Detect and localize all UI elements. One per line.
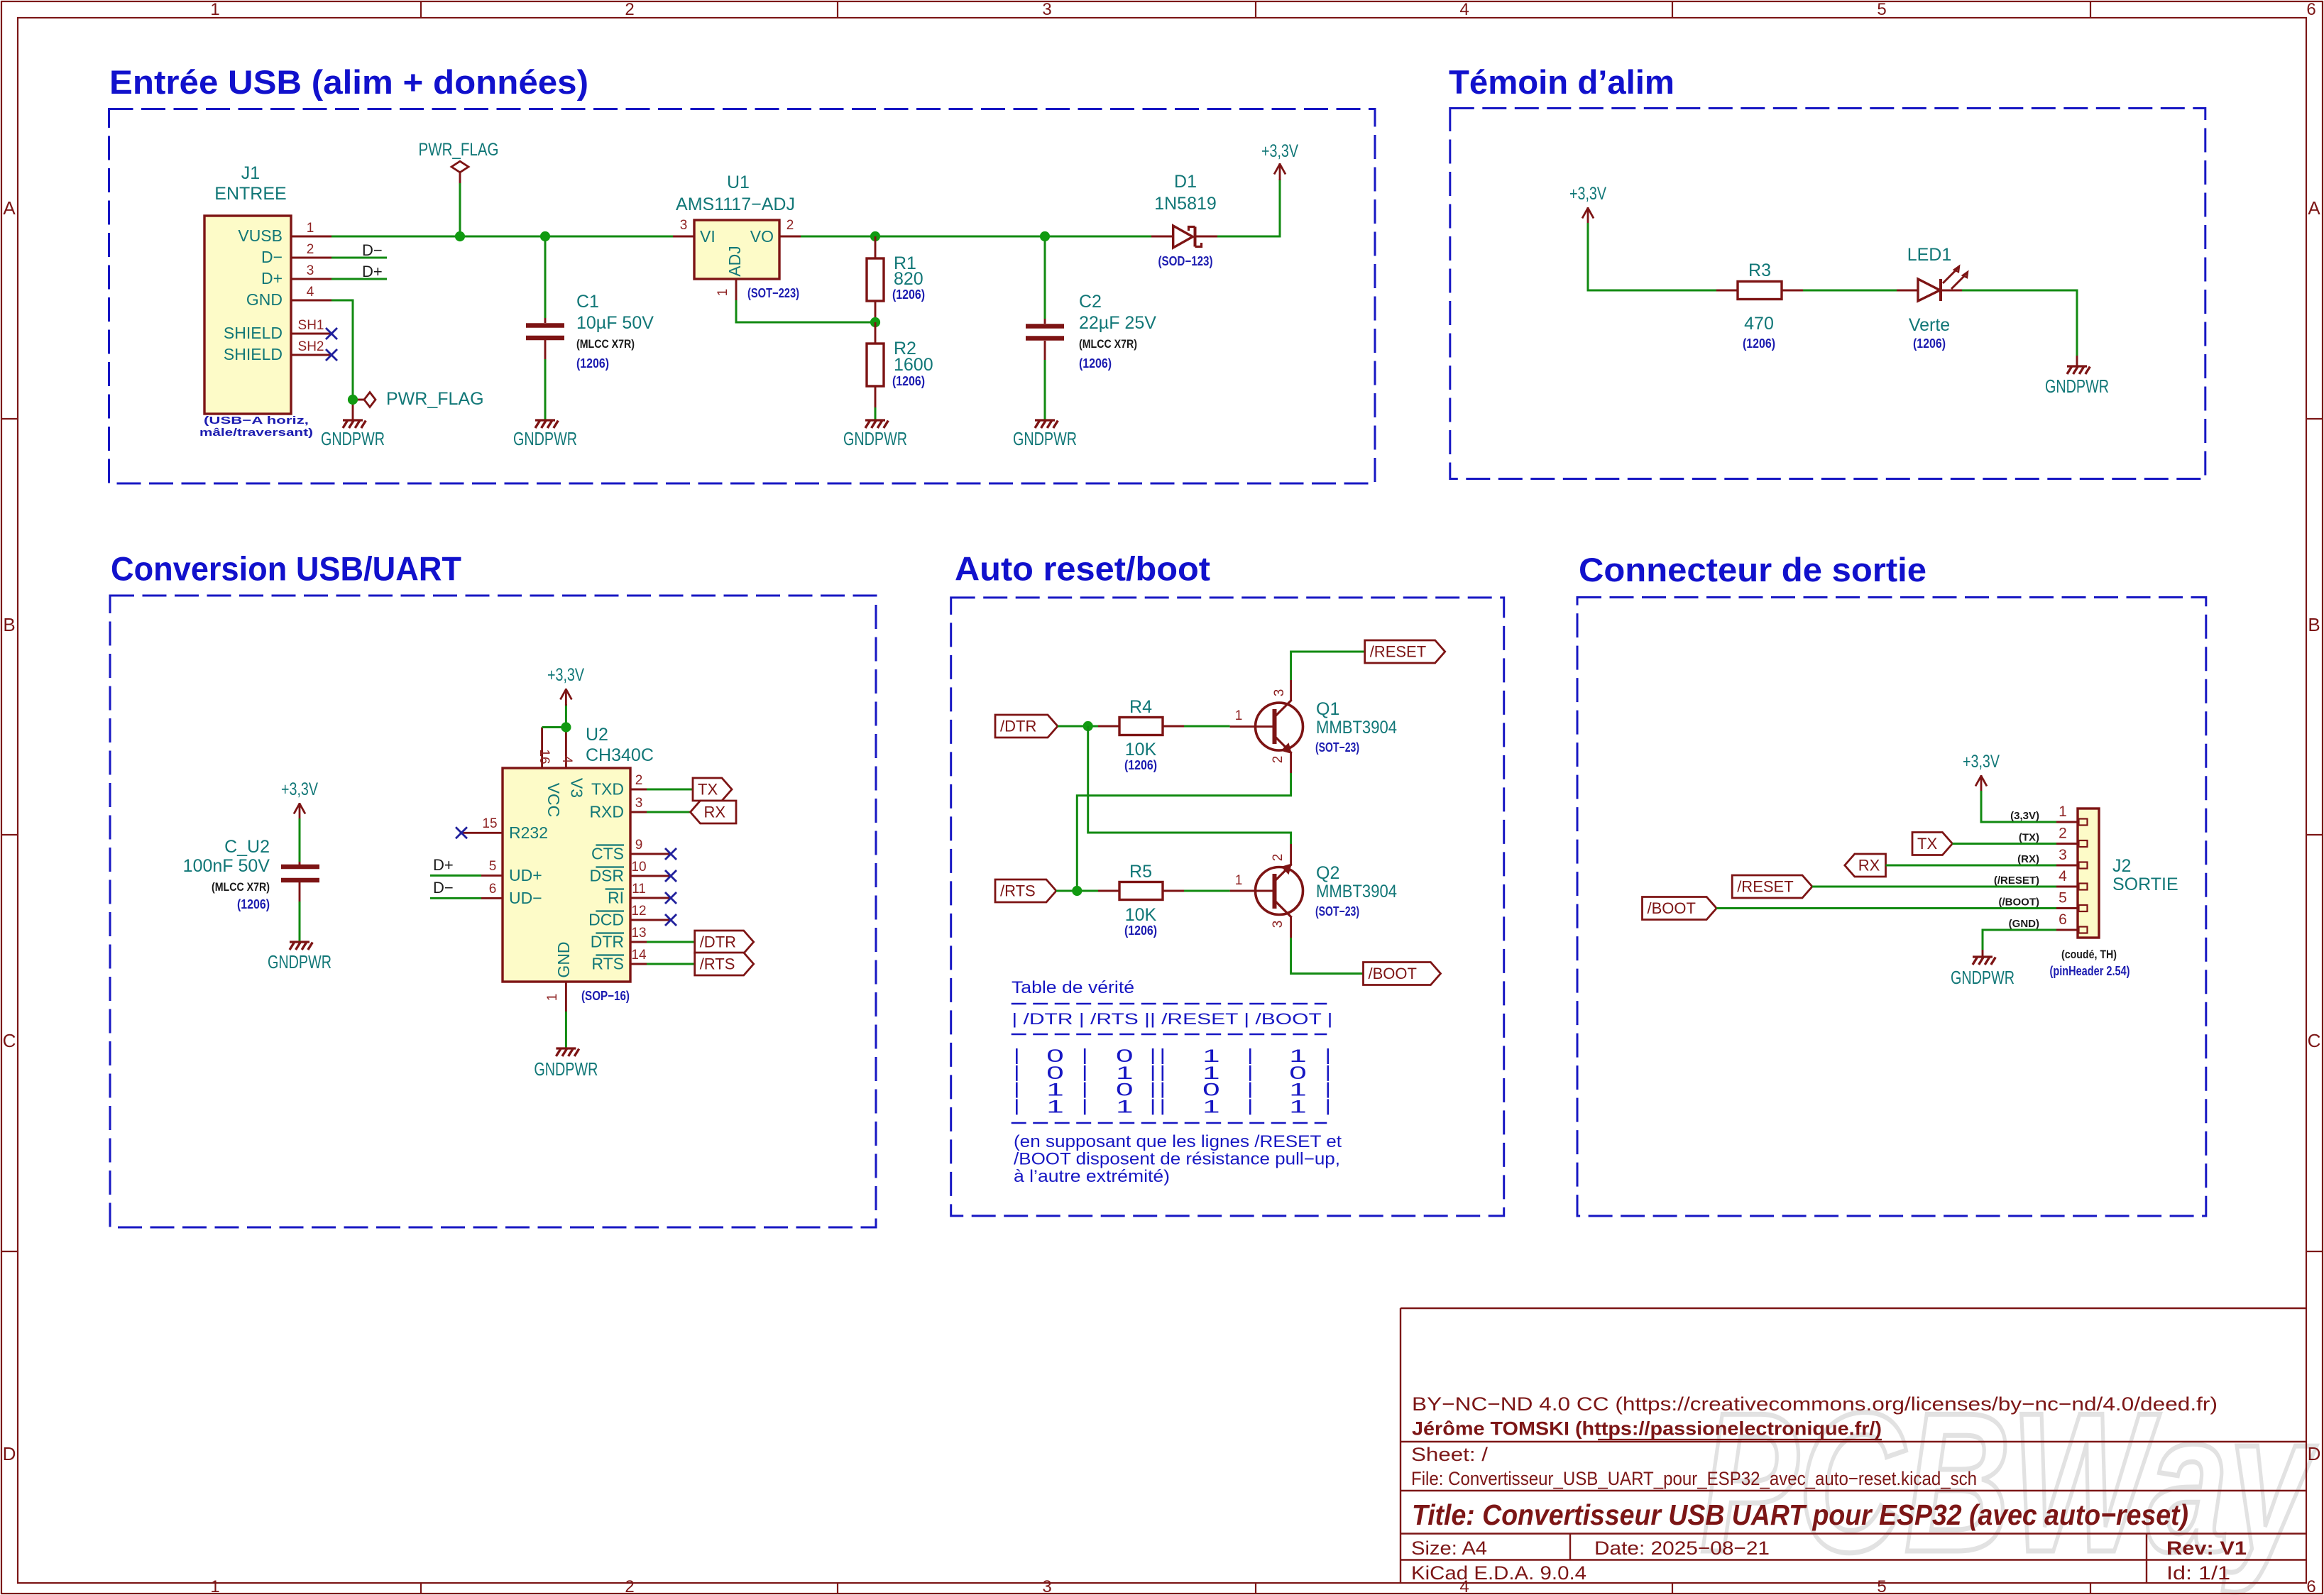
- ground GNDPWR (J2): [1973, 955, 1993, 958]
- ground GNDPWR under R2: [865, 419, 885, 421]
- no-connect X on SH2: [326, 349, 337, 361]
- svg-text:A: A: [2308, 197, 2320, 219]
- svg-text:/RTS: /RTS: [1000, 882, 1036, 900]
- svg-text:(/BOOT): (/BOOT): [1999, 897, 2040, 909]
- junction bus/PWR_FLAG: [455, 231, 465, 241]
- svg-text:(RX): (RX): [2017, 853, 2039, 865]
- svg-text:D+: D+: [261, 269, 283, 287]
- svg-text:(coudé, TH): (coudé, TH): [2061, 948, 2117, 961]
- J1 pin 4 GND: [291, 300, 331, 302]
- svg-text:1: 1: [210, 1577, 219, 1595]
- svg-text:3: 3: [635, 796, 643, 811]
- svg-text:5: 5: [1877, 1577, 1886, 1595]
- svg-text:(3,3V): (3,3V): [2010, 810, 2039, 822]
- svg-text:Connecteur de sortie: Connecteur de sortie: [1579, 551, 1926, 588]
- svg-text:3: 3: [2059, 847, 2067, 863]
- svg-text:VCC: VCC: [544, 783, 563, 818]
- wire ADJ to divider node: [736, 300, 871, 322]
- svg-text:22µF 25V: 22µF 25V: [1079, 313, 1156, 333]
- svg-text:R4: R4: [1129, 697, 1152, 717]
- junction bus/R1: [870, 231, 880, 241]
- junction bus/C2: [1040, 231, 1050, 241]
- U2 pin 10 DSR: [630, 875, 647, 877]
- svg-text:TX: TX: [698, 781, 718, 799]
- svg-text:Q2: Q2: [1316, 863, 1339, 883]
- net flag TX (J2): [1912, 833, 1953, 855]
- junction divider node: [870, 317, 880, 327]
- svg-text:3: 3: [1042, 0, 1051, 19]
- svg-text:(1206): (1206): [1124, 923, 1157, 938]
- svg-text:15: 15: [482, 816, 497, 831]
- wire +3,3V to J2 pin1: [1981, 791, 2056, 822]
- svg-text:Témoin d’alim: Témoin d’alim: [1449, 63, 1675, 101]
- svg-text:GNDPWR: GNDPWR: [1951, 967, 2015, 988]
- U1 pin 3 VI: [673, 236, 694, 238]
- svg-text:4: 4: [559, 756, 574, 764]
- svg-text:/RESET: /RESET: [1370, 643, 1426, 661]
- IC U2 CH340C: [503, 768, 630, 982]
- svg-text:3: 3: [1271, 921, 1286, 928]
- svg-text:D: D: [3, 1443, 16, 1464]
- svg-text:J2: J2: [2112, 856, 2131, 876]
- svg-text:100nF 50V: 100nF 50V: [183, 856, 270, 876]
- net flag /DTR (U2): [695, 931, 754, 953]
- net flag TX (U2): [693, 778, 732, 801]
- wire RTS to /RTS flag: [647, 963, 695, 965]
- svg-text:D1: D1: [1174, 172, 1197, 192]
- truth table bottom rule: [1012, 1122, 1327, 1124]
- power +3,3V (Témoin): [1587, 207, 1589, 224]
- junction GND/PWR_FLAG: [348, 395, 358, 405]
- svg-text:+3,3V: +3,3V: [281, 779, 318, 799]
- wire DTR to /DTR flag: [647, 941, 695, 943]
- junction /RTS node: [1072, 886, 1082, 896]
- junction /DTR node: [1083, 721, 1093, 731]
- ground GNDPWR under J1: [343, 419, 363, 421]
- ground GNDPWR (U2): [556, 1047, 576, 1049]
- U2 pin 3 RXD: [630, 811, 647, 813]
- svg-text:MMBT3904: MMBT3904: [1316, 882, 1397, 901]
- svg-text:A: A: [3, 197, 16, 219]
- svg-text:(1206): (1206): [1913, 336, 1946, 351]
- svg-text:RTS: RTS: [591, 955, 624, 973]
- svg-text:J1: J1: [241, 163, 260, 183]
- section box Témoin: [1450, 109, 2205, 479]
- svg-text:470: 470: [1744, 314, 1774, 334]
- LED LED1 Verte: [1897, 290, 1918, 292]
- power flag PWR_FLAG (VUSB): [451, 161, 468, 172]
- wire R5 to Q2 base: [1184, 890, 1230, 892]
- svg-text:5: 5: [2059, 890, 2067, 906]
- svg-text:R3: R3: [1748, 261, 1771, 280]
- U2 pin 6 UD-: [481, 897, 503, 899]
- svg-text:RXD: RXD: [589, 803, 624, 821]
- svg-text:GNDPWR: GNDPWR: [843, 428, 907, 449]
- Q1 emitter arrow: [1283, 745, 1291, 753]
- svg-text:2: 2: [625, 0, 634, 19]
- svg-text:(en supposant que les lignes /: (en supposant que les lignes /RESET et: [1014, 1132, 1342, 1151]
- svg-text:1: 1: [1235, 708, 1243, 723]
- svg-text:11: 11: [632, 882, 646, 897]
- svg-text:Table de vérité: Table de vérité: [1012, 978, 1134, 997]
- U2 pin 14 RTS: [630, 963, 647, 965]
- svg-text:RX: RX: [1858, 857, 1880, 875]
- svg-text:16: 16: [537, 749, 552, 764]
- svg-text:GNDPWR: GNDPWR: [2045, 376, 2109, 397]
- svg-text:RI: RI: [608, 889, 624, 907]
- svg-text:à l’autre extrémité): à l’autre extrémité): [1014, 1167, 1170, 1186]
- svg-text:D−: D−: [362, 241, 383, 259]
- wire R2 to ground: [875, 407, 877, 420]
- svg-text:SHIELD: SHIELD: [224, 345, 283, 363]
- net flag /RESET (auto): [1365, 640, 1445, 663]
- U1 pin 1 ADJ: [735, 279, 738, 300]
- title block frame: [1401, 1308, 2306, 1309]
- svg-text:MMBT3904: MMBT3904: [1316, 718, 1397, 738]
- wire C2 to ground: [1044, 360, 1046, 420]
- J2 pin 5 (/BOOT): [2056, 907, 2078, 909]
- svg-text:PWR_FLAG: PWR_FLAG: [419, 140, 499, 160]
- truth table top rule: [1012, 1003, 1327, 1005]
- svg-text:6: 6: [2306, 1577, 2315, 1595]
- wire bus to C1: [544, 236, 547, 318]
- svg-text:(SOD−123): (SOD−123): [1158, 254, 1213, 268]
- resistor R1 820: [875, 236, 877, 258]
- U2 pin 5 UD+: [481, 875, 503, 877]
- svg-text:+3,3V: +3,3V: [547, 665, 584, 685]
- svg-text:Verte: Verte: [1909, 315, 1950, 335]
- svg-text:U2: U2: [586, 725, 608, 745]
- svg-text:(TX): (TX): [2019, 832, 2039, 844]
- connector J1 ENTREE (USB-A): [204, 216, 291, 414]
- svg-text:(1206): (1206): [892, 287, 925, 302]
- wire stub junction to ground: [352, 400, 354, 420]
- LED1 emission arrows: [1943, 267, 1959, 283]
- svg-text:13: 13: [631, 926, 646, 941]
- svg-text:R232: R232: [509, 823, 548, 842]
- svg-text:(GND): (GND): [2009, 918, 2039, 930]
- svg-text:Jérôme TOMSKI (https://passion: Jérôme TOMSKI (https://passionelectroniq…: [1412, 1418, 1882, 1440]
- svg-text:C: C: [2308, 1030, 2321, 1051]
- U2 pin 15 R232: [461, 832, 503, 834]
- wire D+ local label stub: [331, 278, 387, 280]
- wire VO to bus segment: [801, 236, 1151, 238]
- svg-text:1: 1: [210, 0, 219, 19]
- resistor R3 470: [1716, 290, 1738, 292]
- svg-text:(1206): (1206): [1743, 336, 1775, 351]
- U2 pin 1 GND: [565, 982, 567, 1012]
- wire /RESET flag to J2 pin4: [1812, 886, 2056, 888]
- svg-text:5: 5: [1877, 0, 1886, 19]
- connector J2 SORTIE: [2078, 809, 2099, 938]
- svg-text:2: 2: [625, 1577, 634, 1595]
- svg-text:(SOT−23): (SOT−23): [1315, 904, 1359, 919]
- svg-text:Size: A4: Size: A4: [1411, 1538, 1487, 1559]
- junction V3/+3,3V: [561, 722, 571, 732]
- svg-text:UD+: UD+: [509, 866, 542, 884]
- svg-text:D: D: [2308, 1443, 2321, 1464]
- ground GNDPWR under C1: [535, 419, 555, 421]
- svg-text:D+: D+: [433, 856, 454, 874]
- svg-text:Sheet: /: Sheet: /: [1411, 1444, 1489, 1465]
- wire GND from J1 pin4 down to PWR_FLAG junction: [331, 300, 353, 400]
- no-connect X on R232: [456, 827, 467, 838]
- svg-text:CTS: CTS: [591, 845, 624, 863]
- power flag PWR_FLAG (GND): [364, 393, 376, 407]
- capacitor C1 10uF 50V: [544, 318, 547, 323]
- transistor Q1 MMBT3904: [1256, 703, 1303, 750]
- svg-text:VO: VO: [750, 227, 774, 246]
- U2 pin 12 stub: [647, 919, 671, 921]
- U2 pin 12 DCD: [630, 919, 647, 921]
- svg-text:(1206): (1206): [576, 356, 609, 371]
- svg-text:U1: U1: [727, 172, 750, 192]
- svg-text:Date: 2025−08−21: Date: 2025−08−21: [1594, 1538, 1770, 1559]
- J2 pin 4 (/RESET): [2056, 886, 2078, 888]
- wire Q1 collector to /RESET: [1291, 652, 1365, 680]
- svg-text:(1206): (1206): [1079, 356, 1112, 371]
- net flag /RTS (auto): [995, 879, 1056, 902]
- no-connect X on RI: [665, 892, 676, 904]
- svg-text:(1206): (1206): [237, 897, 270, 911]
- truth table header rule: [1012, 1034, 1327, 1036]
- svg-text:DSR: DSR: [589, 867, 624, 885]
- capacitor C_U2 100nF 50V: [299, 862, 301, 865]
- svg-text:6: 6: [2306, 0, 2315, 19]
- junction bus/C1: [540, 231, 550, 241]
- wire VCC/V3 to +3,3V: [542, 726, 566, 728]
- net flag /RESET (J2): [1732, 875, 1812, 898]
- no-connect X on CTS: [665, 848, 676, 860]
- svg-text:3: 3: [680, 218, 688, 233]
- svg-text:C2: C2: [1079, 292, 1102, 312]
- svg-text:10K: 10K: [1125, 905, 1157, 925]
- svg-text:C: C: [3, 1030, 16, 1051]
- svg-text:D−: D−: [261, 248, 283, 266]
- net flag RX (U2): [691, 801, 737, 823]
- wire R4 to Q1 base: [1184, 725, 1230, 728]
- U2 pin 11 stub: [647, 897, 671, 899]
- svg-text:(USB−A horiz,: (USB−A horiz,: [204, 415, 309, 427]
- svg-text:/RTS: /RTS: [700, 955, 735, 973]
- wire J2 pin6 to ground: [1983, 930, 2056, 950]
- svg-text:B: B: [3, 614, 15, 635]
- svg-text:3: 3: [1042, 1577, 1051, 1595]
- svg-text:/DTR: /DTR: [1000, 718, 1036, 735]
- svg-text:D+: D+: [362, 263, 383, 280]
- svg-text:AMS1117−ADJ: AMS1117−ADJ: [676, 194, 795, 214]
- svg-text:2: 2: [1271, 756, 1286, 764]
- svg-text:(SOT−23): (SOT−23): [1315, 740, 1359, 755]
- svg-text:GND: GND: [554, 941, 573, 977]
- svg-text:GNDPWR: GNDPWR: [534, 1058, 598, 1080]
- svg-text:GNDPWR: GNDPWR: [321, 428, 385, 449]
- svg-text:3: 3: [307, 263, 314, 278]
- svg-text:TX: TX: [1917, 835, 1937, 853]
- U2 pin 2 TXD: [630, 789, 647, 791]
- transistor Q2 MMBT3904: [1256, 867, 1303, 915]
- J2 pin 3 (RX): [2056, 865, 2078, 867]
- wire RXD to RX flag: [647, 811, 691, 813]
- svg-text:1: 1: [716, 289, 730, 297]
- Q2 emitter arrow: [1283, 865, 1290, 873]
- svg-text:GND: GND: [246, 290, 283, 309]
- svg-text:/BOOT disposent de résistance: /BOOT disposent de résistance pull−up,: [1014, 1150, 1340, 1169]
- wire TX flag to J2 pin2: [1953, 843, 2057, 845]
- svg-text:Q1: Q1: [1316, 699, 1339, 719]
- U2 pin 4 V3: [565, 728, 567, 769]
- net flag /DTR (auto): [995, 715, 1058, 738]
- J1 pin SH1: [291, 333, 331, 335]
- wire C1 to ground: [544, 359, 547, 420]
- svg-text:CH340C: CH340C: [586, 745, 654, 765]
- svg-text:3: 3: [1272, 689, 1287, 697]
- svg-text:SHIELD: SHIELD: [224, 324, 283, 342]
- svg-text:TXD: TXD: [591, 780, 624, 799]
- wire /DTR to R4: [1058, 725, 1098, 728]
- power +3,3V (C_U2): [299, 803, 301, 820]
- power +3,3V (J2): [1980, 775, 1983, 792]
- wire /BOOT flag to J2 pin5: [1716, 907, 2056, 909]
- svg-text:1: 1: [2059, 804, 2067, 820]
- net flag /RTS (U2): [695, 953, 754, 975]
- svg-text:R5: R5: [1129, 862, 1152, 882]
- resistor R2 1600: [875, 322, 877, 344]
- svg-text:C_U2: C_U2: [224, 837, 270, 857]
- wire R3 to LED1: [1803, 290, 1897, 292]
- svg-text:| /DTR | /RTS || /RESET | /BOO: | /DTR | /RTS || /RESET | /BOOT |: [1012, 1010, 1332, 1028]
- U2 pin 11 RI: [630, 897, 647, 899]
- svg-text:Title: Convertisseur USB UART: Title: Convertisseur USB UART pour ESP32…: [1412, 1498, 2188, 1531]
- svg-text:Entrée USB (alim + données): Entrée USB (alim + données): [109, 63, 588, 101]
- svg-text:2: 2: [1271, 854, 1286, 862]
- ground GNDPWR (Témoin): [2067, 365, 2087, 367]
- section box Auto reset/boot: [951, 598, 1504, 1216]
- wire bus to C2: [1044, 236, 1046, 319]
- svg-text:/BOOT: /BOOT: [1369, 965, 1417, 982]
- svg-text:+3,3V: +3,3V: [1569, 184, 1606, 204]
- net flag RX (J2): [1845, 854, 1886, 877]
- svg-text:1600: 1600: [894, 355, 933, 375]
- J1 pin 1 VUSB: [291, 236, 331, 238]
- svg-text:Id: 1/1: Id: 1/1: [2166, 1562, 2230, 1584]
- net flag /BOOT (J2): [1643, 897, 1717, 920]
- svg-text:10K: 10K: [1125, 740, 1157, 760]
- wire C_U2 to ground: [299, 901, 301, 942]
- svg-text:mâle/traversant): mâle/traversant): [199, 427, 313, 439]
- wire U2 GND to ground: [565, 1012, 567, 1048]
- svg-text:VUSB: VUSB: [238, 226, 283, 245]
- svg-text:BY−NC−ND 4.0 CC (https://creat: BY−NC−ND 4.0 CC (https://creativecommons…: [1412, 1393, 2218, 1415]
- J2 pin 1 (3,3V): [2056, 821, 2078, 823]
- ground GNDPWR under C2: [1035, 419, 1055, 421]
- power +3,3V (U2): [565, 689, 567, 706]
- svg-text:D−: D−: [433, 879, 454, 897]
- svg-text:(MLCC X7R): (MLCC X7R): [576, 337, 635, 351]
- svg-text:820: 820: [894, 269, 923, 289]
- wire D- into UD-: [430, 897, 481, 899]
- no-connect X on DCD: [665, 914, 676, 926]
- svg-text:14: 14: [631, 948, 647, 963]
- J1 pin SH2: [291, 354, 331, 356]
- svg-text:(1206): (1206): [1124, 758, 1157, 772]
- svg-text:GNDPWR: GNDPWR: [268, 951, 331, 972]
- wire /DTR node to Q2 emitter: [1088, 726, 1291, 844]
- wire Q2 collector to /BOOT: [1291, 938, 1364, 974]
- wire VUSB bus from J1 pin1 to D1 anode: [331, 236, 1151, 238]
- U2 pin 9 stub: [647, 853, 671, 855]
- svg-text:2: 2: [635, 773, 643, 788]
- U1 pin 2 VO: [779, 236, 801, 238]
- J1 pin 2 D-: [291, 257, 331, 259]
- section box Connecteur: [1577, 598, 2206, 1217]
- svg-text:File: Convertisseur_USB_UART_p: File: Convertisseur_USB_UART_pour_ESP32_…: [1411, 1468, 1977, 1489]
- wire +3,3V to R3: [1588, 223, 1716, 290]
- wire D1 to +3,3V: [1217, 179, 1280, 236]
- wire Q1 emitter to /RTS node: [1077, 773, 1290, 891]
- wire TXD to TX flag: [647, 789, 693, 791]
- ground GNDPWR (C_U2): [290, 941, 309, 943]
- svg-text:VI: VI: [700, 227, 716, 246]
- svg-text:/RESET: /RESET: [1737, 878, 1793, 896]
- U2 pin 13 DTR: [630, 941, 647, 943]
- wire /RTS to R5: [1056, 890, 1098, 892]
- svg-text:(SOT−223): (SOT−223): [747, 286, 799, 300]
- svg-text:(pinHeader 2.54): (pinHeader 2.54): [2050, 964, 2130, 978]
- svg-text:9: 9: [635, 838, 643, 853]
- svg-text:ADJ: ADJ: [725, 246, 744, 276]
- svg-text:KiCad E.D.A. 9.0.4: KiCad E.D.A. 9.0.4: [1411, 1562, 1586, 1584]
- section box Conversion: [110, 596, 876, 1227]
- wire D+ into UD+: [430, 875, 481, 877]
- svg-text:6: 6: [2059, 911, 2067, 928]
- svg-text:1: 1: [545, 994, 560, 1002]
- svg-text:1: 1: [307, 221, 314, 236]
- diode D1 1N5819 (Schottky): [1151, 236, 1173, 238]
- svg-text:6: 6: [489, 882, 497, 897]
- wire D- local label stub: [331, 257, 387, 259]
- J2 pin 2 (TX): [2056, 843, 2078, 845]
- svg-text:(SOP−16): (SOP−16): [581, 989, 630, 1003]
- svg-text:(1206): (1206): [892, 374, 925, 388]
- svg-text:(MLCC X7R): (MLCC X7R): [212, 880, 270, 894]
- no-connect X on SH1: [326, 328, 337, 339]
- svg-text:GNDPWR: GNDPWR: [513, 428, 577, 449]
- net flag /BOOT (auto): [1364, 963, 1441, 985]
- svg-text:V3: V3: [568, 778, 586, 798]
- resistor R5 10K: [1098, 890, 1119, 892]
- svg-text:2: 2: [307, 242, 314, 257]
- wire +3,3V to C_U2: [299, 818, 301, 862]
- svg-text:12: 12: [631, 904, 646, 919]
- wire PWR_FLAG to bus: [459, 183, 461, 236]
- resistor R4 10K: [1098, 725, 1119, 728]
- wire RX flag to J2 pin3: [1886, 865, 2057, 867]
- wire LED1 to ground: [1962, 290, 2077, 356]
- svg-text:1 1 1 1: 1 1 1 1: [1012, 1097, 1332, 1117]
- svg-text:GNDPWR: GNDPWR: [1013, 428, 1077, 449]
- svg-text:4: 4: [2059, 868, 2067, 884]
- svg-text:C1: C1: [576, 292, 599, 312]
- svg-text:UD−: UD−: [509, 889, 542, 907]
- svg-text:/BOOT: /BOOT: [1648, 899, 1696, 917]
- regulator U1 AMS1117-ADJ: [694, 220, 779, 279]
- svg-text:/DTR: /DTR: [700, 933, 736, 951]
- svg-text:DCD: DCD: [588, 911, 624, 929]
- J2 pin 6 (GND): [2056, 929, 2078, 931]
- svg-text:Conversion USB/UART: Conversion USB/UART: [111, 550, 461, 588]
- svg-text:PWR_FLAG: PWR_FLAG: [386, 389, 484, 409]
